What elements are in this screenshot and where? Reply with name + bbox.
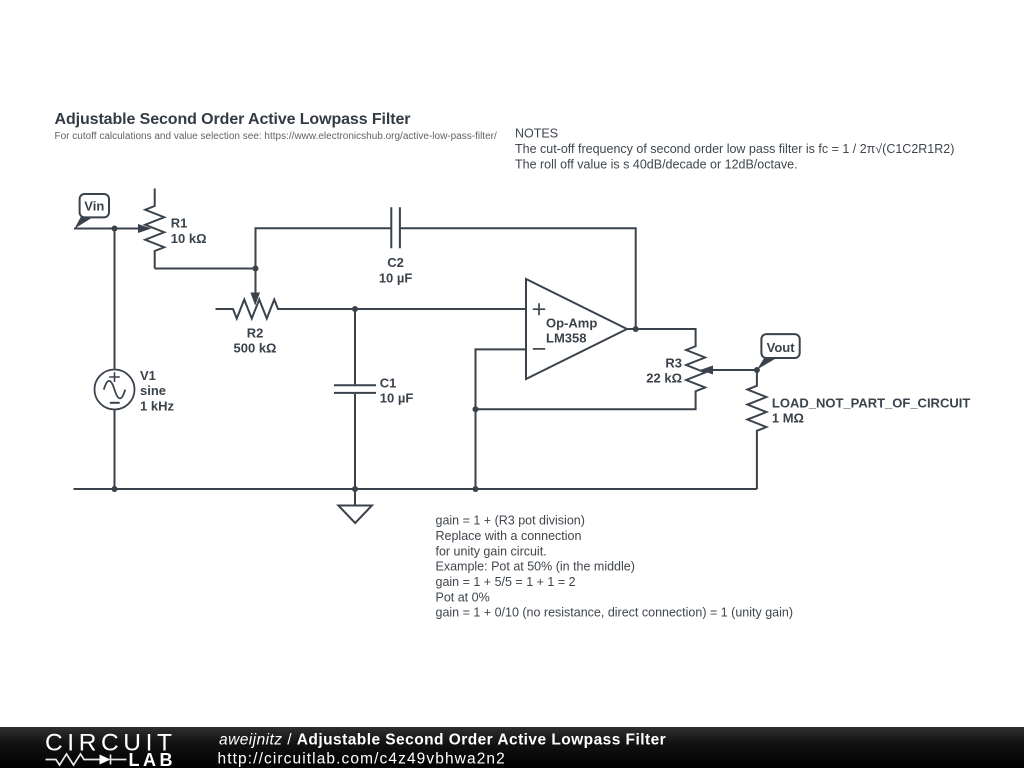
svg-text:Pot at 0%: Pot at 0% [436,590,490,604]
junction Vout node [754,367,760,373]
junction Vin node [112,226,118,232]
wire C2 right plate right then down to op-amp output [400,228,636,329]
op-amp + input symbol [533,303,545,315]
Vin flag [75,194,110,229]
junction feedback node [473,406,479,412]
V1 plus sign [109,372,120,382]
junction R2/C1/op-amp input node [352,306,358,312]
capacitor C1 plates [334,385,376,393]
svg-text:For cutoff calculations and va: For cutoff calculations and value select… [55,131,497,142]
wire Vin node down to V1 top [114,229,116,370]
wire R2 to op-amp + input [296,308,527,310]
junction op-amp output node [633,326,639,332]
wire R1 bottom to node [155,268,256,270]
svg-text:LM358: LM358 [546,330,586,345]
junction R1 bottom node [253,266,259,272]
svg-text:R2: R2 [247,326,264,341]
wire node down to C1 [354,309,356,384]
svg-text:The roll off value is s 40dB/d: The roll off value is s 40dB/decade or 1… [515,157,798,171]
ground stub [354,489,356,506]
V1 minus sign [110,402,120,404]
svg-text:Example: Pot at 50% (in the mi: Example: Pot at 50% (in the middle) [436,560,635,574]
svg-text:Replace with a connection: Replace with a connection [436,529,582,543]
R2 wiper arrow [250,293,260,306]
voltage source V1 [95,370,135,410]
potentiometer R2 [216,300,296,319]
junction V1 ground node [112,486,118,492]
svg-text:LAB: LAB [129,750,177,768]
wire R3 wiper to Vout node [712,369,757,371]
svg-text:http://circuitlab.com/c4z49vbh: http://circuitlab.com/c4z49vbhwa2n2 [218,751,506,768]
potentiometer R3 with output and bottom wires [476,329,706,409]
logo schematic squiggle: wire, resistor, diode [46,754,127,765]
gain note text [436,514,794,620]
svg-text:R3: R3 [665,355,682,370]
resistor LOAD_NOT_PART_OF_CIRCUIT [747,370,766,489]
wire V1 bottom to rail [114,410,116,490]
svg-text:Vout: Vout [767,340,796,355]
Vout flag [757,334,800,370]
potentiometer R1 [145,189,164,269]
svg-text:gain = 1 + 5/5 = 1 + 1 = 2: gain = 1 + 5/5 = 1 + 1 = 2 [436,575,576,589]
ground rail wire [74,488,757,490]
svg-text:500 kΩ: 500 kΩ [234,340,277,355]
svg-text:1 MΩ: 1 MΩ [772,410,804,425]
svg-text:10 µF: 10 µF [380,390,414,405]
svg-text:C2: C2 [387,255,404,270]
svg-text:C1: C1 [380,376,397,391]
svg-text:The cut-off frequency of secon: The cut-off frequency of second order lo… [515,142,954,156]
svg-text:Adjustable Second Order Active: Adjustable Second Order Active Lowpass F… [55,111,411,128]
svg-text:10 kΩ: 10 kΩ [171,231,207,246]
wire node up then right to C2 left plate [256,228,392,268]
wire op-amp - input left then down to rail [476,349,527,489]
svg-text:Vin: Vin [84,198,104,213]
svg-text:LOAD_NOT_PART_OF_CIRCUIT: LOAD_NOT_PART_OF_CIRCUIT [772,395,970,410]
junction C1 ground node [352,486,358,492]
svg-text:gain = 1 + (R3 pot division): gain = 1 + (R3 pot division) [436,514,585,528]
svg-text:Op-Amp: Op-Amp [546,316,597,331]
component labels [140,215,970,425]
svg-text:aweijnitz / Adjustable Second: aweijnitz / Adjustable Second Order Acti… [219,732,666,749]
wire Vin to R1 wiper [74,228,140,230]
svg-text:22 kΩ: 22 kΩ [646,370,682,385]
svg-text:R1: R1 [171,215,188,230]
capacitor C2 plates [391,207,400,248]
V1 sine wave [104,381,125,399]
svg-text:sine: sine [140,383,166,398]
wire C1 to rail [354,394,356,489]
R3 wiper arrow [700,366,713,375]
svg-text:10 µF: 10 µF [379,271,413,286]
svg-text:V1: V1 [140,368,156,383]
op-amp - input symbol [533,348,545,350]
wire node down to R2 wiper arrow [255,269,257,294]
notes text [515,127,954,172]
R1 wiper arrow [138,224,152,233]
svg-text:gain = 1 + 0/10 (no resistance: gain = 1 + 0/10 (no resistance, direct c… [436,606,794,620]
svg-text:for unity gain circuit.: for unity gain circuit. [436,544,547,558]
ground symbol triangle [338,506,372,524]
junction op-amp minus ground node [473,486,479,492]
svg-text:1 kHz: 1 kHz [140,398,174,413]
op-amp U1 triangle [526,279,627,379]
svg-text:NOTES: NOTES [515,127,558,141]
